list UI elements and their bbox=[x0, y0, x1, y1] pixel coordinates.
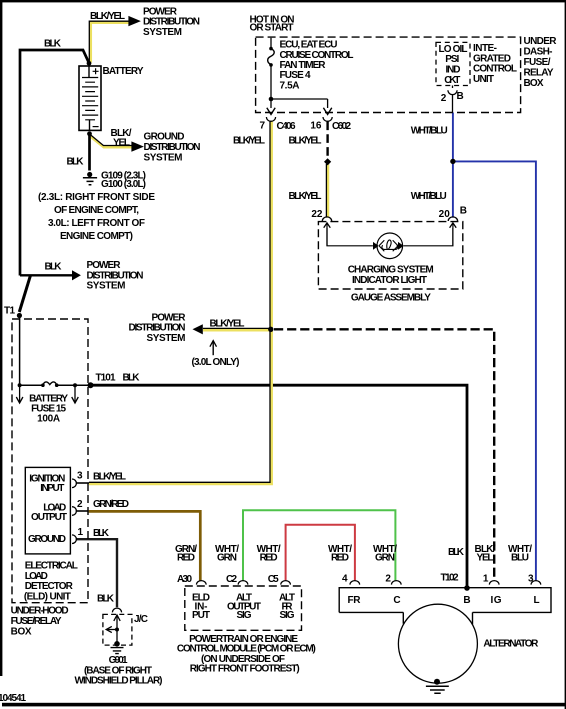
box lo oil psi ind ckt (dashed) bbox=[436, 42, 470, 85]
svg-text:GRN/RED: GRN/RED bbox=[93, 499, 129, 510]
wire BLK battery to ground G109 bbox=[88, 134, 91, 171]
svg-text:INTE-: INTE- bbox=[473, 43, 497, 54]
svg-text:YEL: YEL bbox=[113, 138, 130, 149]
svg-text:CONTROL: CONTROL bbox=[473, 64, 517, 75]
svg-text:SYSTEM: SYSTEM bbox=[147, 333, 186, 344]
svg-text:C5: C5 bbox=[268, 574, 279, 585]
svg-text:16: 16 bbox=[310, 121, 322, 132]
node fuse left end bbox=[41, 383, 45, 387]
wire GRN/RED ELD to PCM A30 bbox=[89, 511, 201, 581]
wire WHT/RED PCM C5 to alternator 4 bbox=[286, 525, 355, 581]
svg-text:J/C: J/C bbox=[134, 614, 148, 625]
svg-text:T101: T101 bbox=[96, 373, 116, 384]
svg-text:INPUT: INPUT bbox=[40, 483, 64, 494]
svg-text:T102: T102 bbox=[441, 573, 459, 584]
svg-text:G100 (3.0L): G100 (3.0L) bbox=[101, 179, 146, 190]
svg-text:BLK: BLK bbox=[93, 528, 110, 539]
svg-text:2: 2 bbox=[385, 574, 391, 585]
node junction 16 wire bbox=[324, 158, 331, 165]
wire ICU pin B stub bbox=[452, 86, 454, 89]
connector PCM C2 bbox=[238, 581, 248, 585]
wire BLK branch to power distribution bbox=[20, 274, 72, 276]
arrow fuse box right down bbox=[323, 108, 331, 115]
wire gauge bulb left bbox=[327, 228, 373, 246]
svg-text:IG: IG bbox=[491, 595, 502, 606]
alternator body bbox=[339, 588, 551, 684]
svg-text:BLK/YEL: BLK/YEL bbox=[93, 472, 126, 483]
ground G901 bbox=[111, 648, 124, 654]
wire BLK/YEL battery to power distribution bbox=[91, 23, 129, 63]
arrow to power distribution (mid-left) bbox=[72, 270, 81, 280]
svg-text:YEL: YEL bbox=[477, 552, 494, 563]
wire BLK ELD pin 1 to G901 bbox=[76, 539, 117, 607]
svg-text:OR START: OR START bbox=[250, 23, 294, 34]
arrow 3.0L only pointer bbox=[210, 341, 217, 356]
box under-hood fuse/relay (dashed) bbox=[12, 319, 88, 603]
wire WHT/BLU from ICU to gauge 20 bbox=[452, 113, 454, 218]
node fuse row left bbox=[18, 383, 22, 387]
svg-text:BLK/YEL: BLK/YEL bbox=[233, 136, 265, 147]
svg-text:RED: RED bbox=[177, 552, 195, 563]
svg-text:BLK: BLK bbox=[123, 373, 141, 384]
svg-text:BLK/YEL: BLK/YEL bbox=[90, 11, 125, 22]
svg-text:GRATED: GRATED bbox=[473, 53, 511, 64]
node junction WHT/BLU bbox=[450, 159, 455, 164]
ground alternator case bbox=[426, 679, 449, 694]
svg-text:DETECTOR: DETECTOR bbox=[25, 581, 74, 592]
svg-text:100A: 100A bbox=[37, 414, 60, 425]
box J/C (dashed) bbox=[103, 614, 132, 645]
svg-text:UNIT: UNIT bbox=[473, 74, 494, 85]
node fuse row right bbox=[73, 383, 77, 387]
svg-text:SYSTEM: SYSTEM bbox=[143, 27, 182, 38]
svg-text:BLK: BLK bbox=[97, 594, 115, 605]
node J/C mid bbox=[115, 628, 119, 632]
svg-text:104541: 104541 bbox=[0, 693, 26, 704]
connector 16/C602 bbox=[323, 117, 332, 121]
node breaker top bbox=[269, 47, 273, 51]
svg-text:SYSTEM: SYSTEM bbox=[144, 152, 183, 163]
svg-text:G901: G901 bbox=[109, 655, 128, 666]
connector ELD pin 1 bbox=[72, 535, 76, 544]
svg-text:22: 22 bbox=[311, 209, 323, 220]
arrow gauge 22 up bbox=[324, 223, 331, 246]
node junction BLK/YEL power dist bbox=[268, 327, 273, 332]
svg-text:7: 7 bbox=[259, 121, 265, 132]
wire branch inside fuse box to 16 bbox=[271, 99, 328, 108]
box gauge assembly (dashed) bbox=[318, 222, 462, 289]
svg-text:T1: T1 bbox=[4, 306, 15, 317]
arrow gauge 20 up bbox=[450, 223, 457, 246]
breaker FUSE 4 element bbox=[268, 49, 275, 65]
svg-text:1: 1 bbox=[483, 574, 489, 585]
svg-text:FR: FR bbox=[348, 595, 362, 606]
svg-text:BATTERY: BATTERY bbox=[103, 66, 144, 77]
svg-text:BOX: BOX bbox=[11, 627, 32, 638]
arrow battery fuse left down bbox=[16, 387, 23, 403]
svg-text:RIGHT FRONT FOOTREST): RIGHT FRONT FOOTREST) bbox=[190, 663, 300, 674]
svg-text:C602: C602 bbox=[332, 121, 351, 132]
wire ELD pin 2 stub bbox=[76, 510, 89, 512]
connector ELD pin 2 bbox=[72, 507, 76, 516]
wire BLK battery positive feed bbox=[20, 50, 89, 276]
svg-text:BLK: BLK bbox=[45, 262, 63, 273]
svg-text:3.0L: LEFT FRONT OF: 3.0L: LEFT FRONT OF bbox=[48, 218, 145, 229]
svg-text:INDICATOR LIGHT: INDICATOR LIGHT bbox=[352, 275, 427, 286]
wire WHT/GRN PCM C2 to alternator 2 bbox=[243, 510, 395, 581]
svg-text:GRN: GRN bbox=[375, 552, 395, 563]
node fuse right end bbox=[55, 383, 59, 387]
svg-text:7.5A: 7.5A bbox=[280, 80, 300, 91]
svg-text:BLK: BLK bbox=[44, 39, 62, 50]
svg-text:BLK: BLK bbox=[67, 157, 85, 168]
svg-text:B: B bbox=[463, 595, 470, 606]
arrow J/C up bbox=[114, 615, 120, 643]
arrow fuse box left down bbox=[267, 108, 275, 115]
arrow to power distribution (top) bbox=[128, 16, 141, 26]
node T1 bbox=[17, 313, 22, 318]
svg-text:(2.3L: RIGHT FRONT SIDE: (2.3L: RIGHT FRONT SIDE bbox=[38, 192, 155, 203]
wire BLK/YEL branch to power distribution (3.0L) bbox=[203, 329, 269, 332]
node J/C bottom bbox=[114, 641, 120, 647]
svg-text:2: 2 bbox=[441, 93, 447, 104]
wire BLK diagonal to T1 bbox=[19, 275, 30, 312]
svg-text:ELECTRICAL: ELECTRICAL bbox=[25, 561, 78, 572]
svg-text:PSI: PSI bbox=[445, 54, 459, 65]
svg-text:C406: C406 bbox=[277, 121, 296, 132]
svg-text:BLU: BLU bbox=[511, 552, 529, 563]
ground G109/G100 bbox=[83, 172, 97, 185]
wire BLK/YEL battery to ground distribution bbox=[90, 136, 132, 148]
connector gauge 22 bbox=[322, 217, 331, 221]
node T102 junction at alternator B bbox=[464, 585, 470, 591]
svg-text:3: 3 bbox=[77, 471, 83, 482]
svg-text:(3.0L ONLY): (3.0L ONLY) bbox=[192, 357, 240, 368]
node battery positive bbox=[87, 61, 92, 66]
connector PCM C5 bbox=[281, 581, 291, 585]
connector gauge 20 bbox=[448, 217, 457, 221]
node T101 bbox=[88, 382, 94, 388]
svg-text:CONTROL MODULE (PCM OR ECM): CONTROL MODULE (PCM OR ECM) bbox=[177, 644, 316, 655]
svg-text:GROUND: GROUND bbox=[28, 534, 66, 545]
connector alternator 1 bbox=[489, 581, 499, 585]
box under-dash fuse/relay (dashed) bbox=[256, 37, 521, 112]
wire gauge bulb right bbox=[404, 228, 453, 246]
svg-text:GAUGE ASSEMBLY: GAUGE ASSEMBLY bbox=[351, 293, 431, 304]
svg-text:SIG: SIG bbox=[280, 610, 295, 621]
connector ELD pin 3 bbox=[72, 479, 76, 488]
connector alternator 2 bbox=[392, 581, 402, 585]
node battery negative bbox=[87, 131, 92, 136]
svg-text:BLK/YEL: BLK/YEL bbox=[289, 191, 322, 202]
wire battery fuse row bbox=[20, 384, 91, 386]
svg-text:2: 2 bbox=[77, 499, 83, 510]
box PCM (dashed) bbox=[185, 586, 302, 630]
svg-text:ALTERNATOR: ALTERNATOR bbox=[483, 639, 539, 650]
box ELD unit bbox=[25, 467, 70, 554]
svg-text:C: C bbox=[393, 595, 400, 606]
node breaker bottom bbox=[269, 63, 273, 67]
svg-text:UNDER: UNDER bbox=[524, 36, 558, 47]
svg-text:SIG: SIG bbox=[237, 610, 252, 621]
svg-text:RED: RED bbox=[331, 552, 349, 563]
arrow battery fuse right down bbox=[72, 387, 79, 403]
svg-text:WHT/BLU: WHT/BLU bbox=[411, 126, 448, 137]
svg-text:4: 4 bbox=[342, 574, 348, 585]
svg-text:OF ENGINE COMPT,: OF ENGINE COMPT, bbox=[54, 205, 139, 216]
fuse BATTERY FUSE 15 element bbox=[43, 382, 57, 385]
svg-text:WINDSHIELD PILLAR): WINDSHIELD PILLAR) bbox=[75, 675, 163, 686]
svg-text:FUSE/: FUSE/ bbox=[524, 57, 551, 68]
node fuse box branch bbox=[269, 97, 274, 102]
svg-text:GRN: GRN bbox=[217, 552, 237, 563]
connector alternator 4 bbox=[350, 581, 360, 585]
svg-text:LO OIL: LO OIL bbox=[439, 44, 468, 55]
svg-text:ENGINE COMPT): ENGINE COMPT) bbox=[60, 231, 133, 242]
svg-text:L: L bbox=[534, 595, 540, 606]
connector J/C top bbox=[112, 608, 121, 612]
svg-text:RELAY: RELAY bbox=[524, 67, 554, 78]
wire WHT/BLU branch to alternator L bbox=[453, 161, 536, 581]
battery B1 bbox=[79, 66, 101, 130]
connector 7/C406 bbox=[266, 117, 275, 121]
svg-text:B: B bbox=[457, 91, 464, 102]
svg-text:OUTPUT: OUTPUT bbox=[31, 512, 67, 523]
svg-text:(ELD) UNIT: (ELD) UNIT bbox=[24, 592, 71, 603]
svg-text:WHT/BLU: WHT/BLU bbox=[411, 191, 447, 202]
wire BLK/YEL dashed to alternator IG bbox=[274, 329, 494, 581]
svg-text:PUT: PUT bbox=[192, 610, 210, 621]
wire BLK T1 down to battery fuse bbox=[19, 314, 21, 385]
svg-text:B: B bbox=[460, 205, 467, 216]
arrow J/C left bbox=[106, 626, 117, 632]
arrow to ground distribution bbox=[131, 141, 144, 151]
svg-text:DASH-: DASH- bbox=[524, 47, 553, 58]
svg-text:BLK: BLK bbox=[448, 547, 465, 558]
svg-text:FUSE/RELAY: FUSE/RELAY bbox=[11, 616, 62, 627]
connector PCM A30 bbox=[197, 581, 207, 585]
wire ELD pin 3 stub bbox=[76, 482, 89, 484]
svg-text:C2: C2 bbox=[226, 574, 237, 585]
wire thick BLK T101 to alternator B bbox=[91, 385, 468, 588]
wire BLK/YEL from junction to gauge 22 bbox=[327, 164, 330, 218]
svg-text:IND: IND bbox=[446, 65, 461, 76]
connector alternator 3 bbox=[531, 581, 541, 585]
wire fuse 4 circuit breaker drop bbox=[270, 38, 272, 48]
wire BLK/YEL main vertical from 7/C406 to ELD pin 3 bbox=[89, 121, 272, 484]
svg-text:BLK/YEL: BLK/YEL bbox=[210, 319, 245, 330]
connector ICU 2/B bbox=[448, 90, 457, 94]
svg-text:SYSTEM: SYSTEM bbox=[87, 281, 126, 292]
wire BLK/YEL dashed from 16/C602 bbox=[326, 122, 328, 159]
svg-text:BOX: BOX bbox=[524, 78, 544, 89]
svg-text:1: 1 bbox=[78, 527, 84, 538]
svg-text:RED: RED bbox=[260, 552, 278, 563]
lamp charging system indicator light bbox=[373, 233, 404, 259]
arrow to power distribution (3.0L, left-pointing) bbox=[193, 324, 203, 334]
svg-text:CKT: CKT bbox=[444, 75, 460, 86]
svg-text:BLK/YEL: BLK/YEL bbox=[289, 136, 322, 147]
svg-text:A30: A30 bbox=[177, 574, 192, 585]
